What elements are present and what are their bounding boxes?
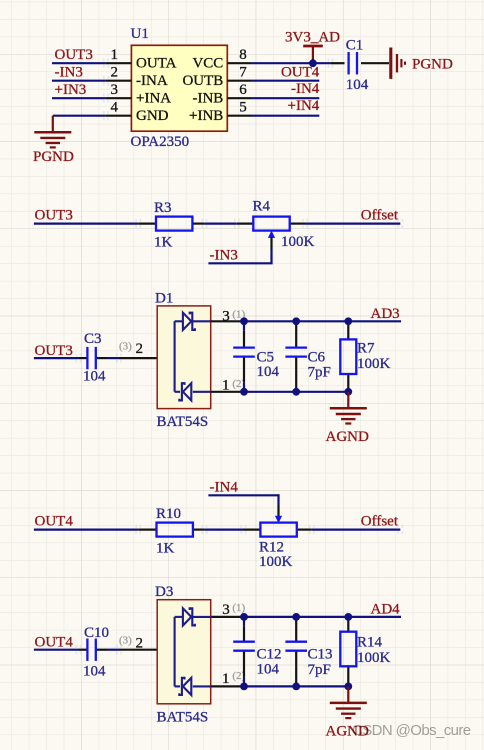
svg-text:R12: R12: [259, 540, 284, 556]
wire bottom rail: [244, 685, 348, 687]
svg-text:7pF: 7pF: [308, 662, 331, 678]
value 7pF (C13): [308, 662, 331, 678]
power ground PGND symbol (right): [391, 48, 405, 79]
svg-text:-IN3: -IN3: [55, 64, 83, 80]
U1 pin 4 (left): [106, 100, 131, 116]
wire pin 6 -IN4: [251, 97, 319, 99]
wire -IN4 to R12 wiper: [208, 494, 278, 505]
op-amp U1 body: [131, 45, 227, 131]
value 104 (C3): [83, 369, 106, 385]
net label Offset (row 4): [361, 514, 399, 530]
pin number 2: [136, 341, 144, 357]
svg-text:C12: C12: [257, 646, 282, 662]
svg-text:+IN4: +IN4: [288, 98, 320, 114]
U1 pin 5 (right): [227, 100, 251, 116]
designator R14: [357, 634, 383, 650]
designator R10: [156, 506, 181, 522]
svg-text:+INB: +INB: [189, 108, 223, 124]
net label +IN4 (pin 5): [288, 98, 320, 114]
net label AD4: [371, 601, 401, 617]
svg-text:-INB: -INB: [192, 91, 223, 107]
svg-text:3: 3: [222, 602, 230, 618]
net label +IN3: [55, 82, 87, 98]
designator R4: [253, 199, 271, 215]
svg-text:C5: C5: [257, 349, 275, 365]
svg-text:100K: 100K: [357, 356, 391, 372]
U1 pin 6 (right): [227, 82, 251, 98]
svg-text:-IN4: -IN4: [210, 480, 239, 496]
designator R3: [154, 200, 172, 216]
diode D3 pin 3: [211, 602, 244, 618]
svg-text:U1: U1: [131, 26, 149, 42]
value 104 (C10): [83, 664, 106, 680]
diode D3 internal bus wire: [175, 617, 183, 687]
wire OUT3 to C3: [34, 357, 79, 359]
svg-text:+IN3: +IN3: [55, 82, 87, 98]
svg-text:100K: 100K: [259, 554, 293, 570]
svg-text:OUT3: OUT3: [35, 343, 73, 359]
diode D3 top schottky diode: [183, 608, 211, 625]
designator D1: [155, 290, 173, 306]
wire OUT4 to R10: [34, 528, 138, 530]
svg-text:OUT4: OUT4: [281, 64, 320, 80]
svg-text:OUTB: OUTB: [182, 73, 223, 89]
svg-text:Offset: Offset: [361, 514, 399, 530]
capacitor C10 pins: [79, 649, 120, 651]
U1 pin name OUTA: [136, 56, 177, 72]
U1 pin name -INA: [136, 73, 168, 89]
wire pin 5 +IN4: [251, 115, 319, 117]
capacitor C13: [285, 642, 307, 651]
capacitor C12: [233, 642, 255, 651]
junction dots bottom rail: [240, 388, 352, 396]
power ground PGND symbol (left): [34, 116, 71, 148]
svg-text:104: 104: [83, 369, 106, 385]
U1 pin name +INA: [136, 91, 171, 107]
value 1K (R10): [156, 541, 175, 557]
wire R12 to Offset: [312, 528, 401, 530]
svg-text:C6: C6: [308, 349, 326, 365]
value 100K (R14): [357, 650, 391, 666]
svg-text:7pF: 7pF: [308, 365, 331, 381]
pin 3 alt designator (1): [232, 308, 245, 320]
net label OUT4: [35, 634, 74, 650]
comment OPA2350: [131, 134, 190, 150]
svg-text:OUT4: OUT4: [35, 514, 74, 530]
designator C3: [84, 331, 102, 347]
analog ground AGND symbol (D3 block): [330, 686, 367, 718]
svg-text:C1: C1: [346, 38, 364, 54]
svg-text:+INA: +INA: [136, 91, 171, 107]
svg-text:C13: C13: [308, 646, 333, 662]
svg-text:BAT54S: BAT54S: [157, 709, 209, 725]
pin 2 alt designator (3): [119, 341, 132, 353]
svg-text:(3): (3): [119, 635, 132, 647]
svg-text:R10: R10: [156, 506, 181, 522]
svg-text:D3: D3: [155, 584, 173, 600]
wire +IN3 to pin 3: [52, 97, 106, 99]
junction node 3V3_AD: [309, 59, 317, 67]
junction dots top rail: [240, 613, 352, 621]
diode D3 bottom schottky diode: [175, 678, 211, 695]
diode D1 pin 2 line: [119, 357, 175, 359]
svg-text:(1): (1): [232, 602, 245, 614]
wire top rail to AD3: [244, 320, 401, 322]
potentiometer R4: [253, 217, 289, 250]
diode D1 pin 1: [211, 378, 244, 394]
pin 3 alt designator (1): [232, 602, 245, 614]
wire -IN3 to pin 2: [52, 80, 106, 82]
resistor R14: [340, 632, 356, 667]
diode D1 pin 3: [211, 308, 244, 324]
svg-text:D1: D1: [155, 290, 173, 306]
svg-text:2: 2: [136, 341, 144, 357]
resistor R7: [340, 339, 356, 374]
designator D3: [155, 584, 173, 600]
designator C10: [84, 625, 109, 641]
U1 pin 3 (left): [106, 82, 131, 98]
comment BAT54S (D3): [157, 709, 209, 725]
svg-text:AD4: AD4: [371, 601, 401, 617]
value 104 (C5): [257, 364, 280, 380]
resistor R7 pins: [347, 321, 349, 392]
capacitor C12 vertical wire/pins: [243, 617, 245, 687]
net label Offset (row 2): [361, 208, 399, 224]
value 100K (R4): [281, 234, 315, 250]
diode D1 bottom schottky diode: [175, 383, 211, 400]
diode D1 body box: [157, 306, 211, 409]
svg-text:VCC: VCC: [192, 56, 223, 72]
svg-text:R3: R3: [154, 200, 172, 216]
svg-text:7: 7: [239, 65, 247, 81]
wire pin 7 OUT4: [251, 80, 319, 82]
value 7pF (C6): [308, 365, 331, 381]
value 100K (R12): [259, 554, 293, 570]
net label OUT4 (row 4): [35, 514, 74, 530]
junction dots top rail: [240, 317, 352, 325]
svg-text:OPA2350: OPA2350: [131, 134, 190, 150]
diode D3 pin 1: [211, 671, 244, 687]
power label AGND (D1 block): [326, 429, 369, 445]
svg-text:1: 1: [222, 671, 230, 687]
svg-text:3: 3: [111, 82, 119, 98]
net label OUT3: [55, 47, 93, 63]
designator U1: [131, 26, 149, 42]
wire R4 wiper to -IN3: [208, 250, 272, 263]
svg-text:8: 8: [239, 47, 247, 63]
resistor R14 pins: [347, 617, 349, 687]
capacitor C1: [349, 52, 357, 74]
U1 pin 7 (right): [227, 65, 251, 81]
capacitor C6: [285, 348, 307, 357]
U1 pin name GND: [136, 108, 169, 124]
diode D1 top schottky diode: [183, 313, 211, 330]
designator C13: [308, 646, 333, 662]
designator R7: [357, 340, 375, 356]
power label AGND (D3 block): [326, 723, 369, 739]
svg-text:C10: C10: [84, 625, 109, 641]
capacitor C6 pins: [295, 321, 297, 392]
designator C5: [257, 349, 275, 365]
wire pin 4 to PGND: [53, 115, 106, 117]
wire hotspot marks: [76, 59, 402, 655]
wire OUT3 to R3: [34, 223, 138, 225]
U1 pin name -INB: [192, 91, 223, 107]
svg-text:-IN3: -IN3: [210, 248, 238, 264]
svg-text:6: 6: [239, 82, 247, 98]
svg-text:104: 104: [83, 664, 106, 680]
wire top rail to AD4: [244, 616, 401, 618]
svg-text:PGND: PGND: [412, 57, 453, 73]
svg-text:Offset: Offset: [361, 208, 399, 224]
net label -IN3: [55, 64, 83, 80]
capacitor C5 vertical wire/pins: [243, 321, 245, 392]
svg-text:R7: R7: [357, 340, 375, 356]
svg-text:104: 104: [346, 77, 369, 93]
svg-text:C3: C3: [84, 331, 102, 347]
wire R3 to R4: [204, 223, 236, 225]
designator C6: [308, 349, 326, 365]
svg-text:AD3: AD3: [371, 306, 400, 322]
U1 pin 2 (left): [106, 65, 131, 81]
svg-text:-IN4: -IN4: [291, 81, 320, 97]
comment BAT54S (D1): [157, 414, 209, 430]
net label OUT3 (row 2): [35, 208, 73, 224]
power label 3V3_AD: [285, 29, 340, 45]
net label -IN4 (row 4): [210, 480, 239, 496]
pin 1 alt designator (2): [232, 378, 245, 390]
wire OUT4 to C10: [34, 649, 79, 651]
net label -IN3 (row 2): [210, 248, 238, 264]
U1 pin name +INB: [189, 108, 223, 124]
svg-text:100K: 100K: [357, 650, 391, 666]
watermark CSDN @Obs_cure: [352, 722, 471, 739]
capacitor C3: [87, 347, 95, 369]
diode D3 body box: [157, 600, 211, 704]
wire R4 to Offset: [305, 223, 400, 225]
value 100K (R7): [357, 356, 391, 372]
analog ground AGND symbol (D1 block): [330, 392, 367, 424]
svg-text:104: 104: [257, 364, 280, 380]
designator C12: [257, 646, 282, 662]
power 3V3_AD symbol: [303, 46, 323, 63]
svg-text:1: 1: [222, 378, 230, 394]
svg-text:3V3_AD: 3V3_AD: [285, 29, 340, 45]
svg-text:-INA: -INA: [136, 73, 168, 89]
U1 pin name VCC: [192, 56, 223, 72]
svg-text:(3): (3): [119, 341, 132, 353]
svg-text:1K: 1K: [154, 234, 173, 250]
capacitor C10: [87, 639, 95, 661]
U1 pin 1 (left): [106, 47, 131, 63]
svg-text:1: 1: [111, 47, 119, 63]
capacitor C3 pins: [79, 357, 120, 359]
potentiometer R12 with wiper arrow from top: [260, 516, 296, 536]
net label OUT4 (pin 7): [281, 64, 320, 80]
value 1K (R3): [154, 234, 173, 250]
designator C1: [346, 38, 364, 54]
svg-text:OUTA: OUTA: [136, 56, 177, 72]
resistor R3: [156, 217, 192, 231]
pin 2 alt designator (3): [119, 635, 132, 647]
pin number 2: [136, 635, 144, 651]
svg-text:2: 2: [111, 65, 119, 81]
resistor R10: [157, 523, 193, 537]
resistor R3 pins: [138, 223, 204, 225]
svg-text:PGND: PGND: [33, 149, 74, 165]
svg-text:OUT3: OUT3: [55, 47, 93, 63]
net label OUT3: [35, 343, 73, 359]
capacitor C13 pins: [295, 617, 297, 687]
potentiometer R12 pins: [244, 505, 312, 530]
svg-text:1K: 1K: [156, 541, 175, 557]
junction dots bottom rail: [240, 683, 352, 691]
wire pin 8 to 3V3_AD node: [251, 62, 330, 64]
svg-text:GND: GND: [136, 108, 169, 124]
net label AD3: [371, 306, 400, 322]
net label -IN4 (pin 6): [291, 81, 320, 97]
wire bottom rail: [244, 391, 348, 393]
svg-text:BAT54S: BAT54S: [157, 414, 209, 430]
resistor R10 pins: [138, 528, 204, 530]
power label PGND (right): [412, 57, 453, 73]
U1 pin name OUTB: [182, 73, 223, 89]
svg-text:100K: 100K: [281, 234, 315, 250]
wire OUT3 to pin 1: [52, 62, 106, 64]
designator R12: [259, 540, 284, 556]
power label PGND (left): [33, 149, 74, 165]
svg-text:5: 5: [239, 100, 247, 116]
pin 1 alt designator (2): [232, 670, 245, 682]
U1 pin 8 (right): [227, 47, 251, 63]
diode D3 pin 2 line: [119, 649, 175, 651]
svg-text:R14: R14: [357, 634, 383, 650]
capacitor C1 pins: [330, 62, 389, 64]
svg-text:R4: R4: [253, 199, 271, 215]
wire R10 to R12: [204, 528, 243, 530]
capacitor C5: [233, 348, 255, 357]
value 104 (C1): [346, 77, 369, 93]
svg-text:OUT3: OUT3: [35, 208, 73, 224]
svg-text:OUT4: OUT4: [35, 634, 74, 650]
diode D1 internal bus wire: [175, 321, 183, 392]
svg-text:3: 3: [222, 308, 230, 324]
potentiometer R4 pins: [237, 223, 305, 225]
svg-text:AGND: AGND: [326, 429, 369, 445]
svg-text:4: 4: [111, 100, 119, 116]
value 104 (C12): [257, 662, 280, 678]
svg-text:104: 104: [257, 662, 280, 678]
